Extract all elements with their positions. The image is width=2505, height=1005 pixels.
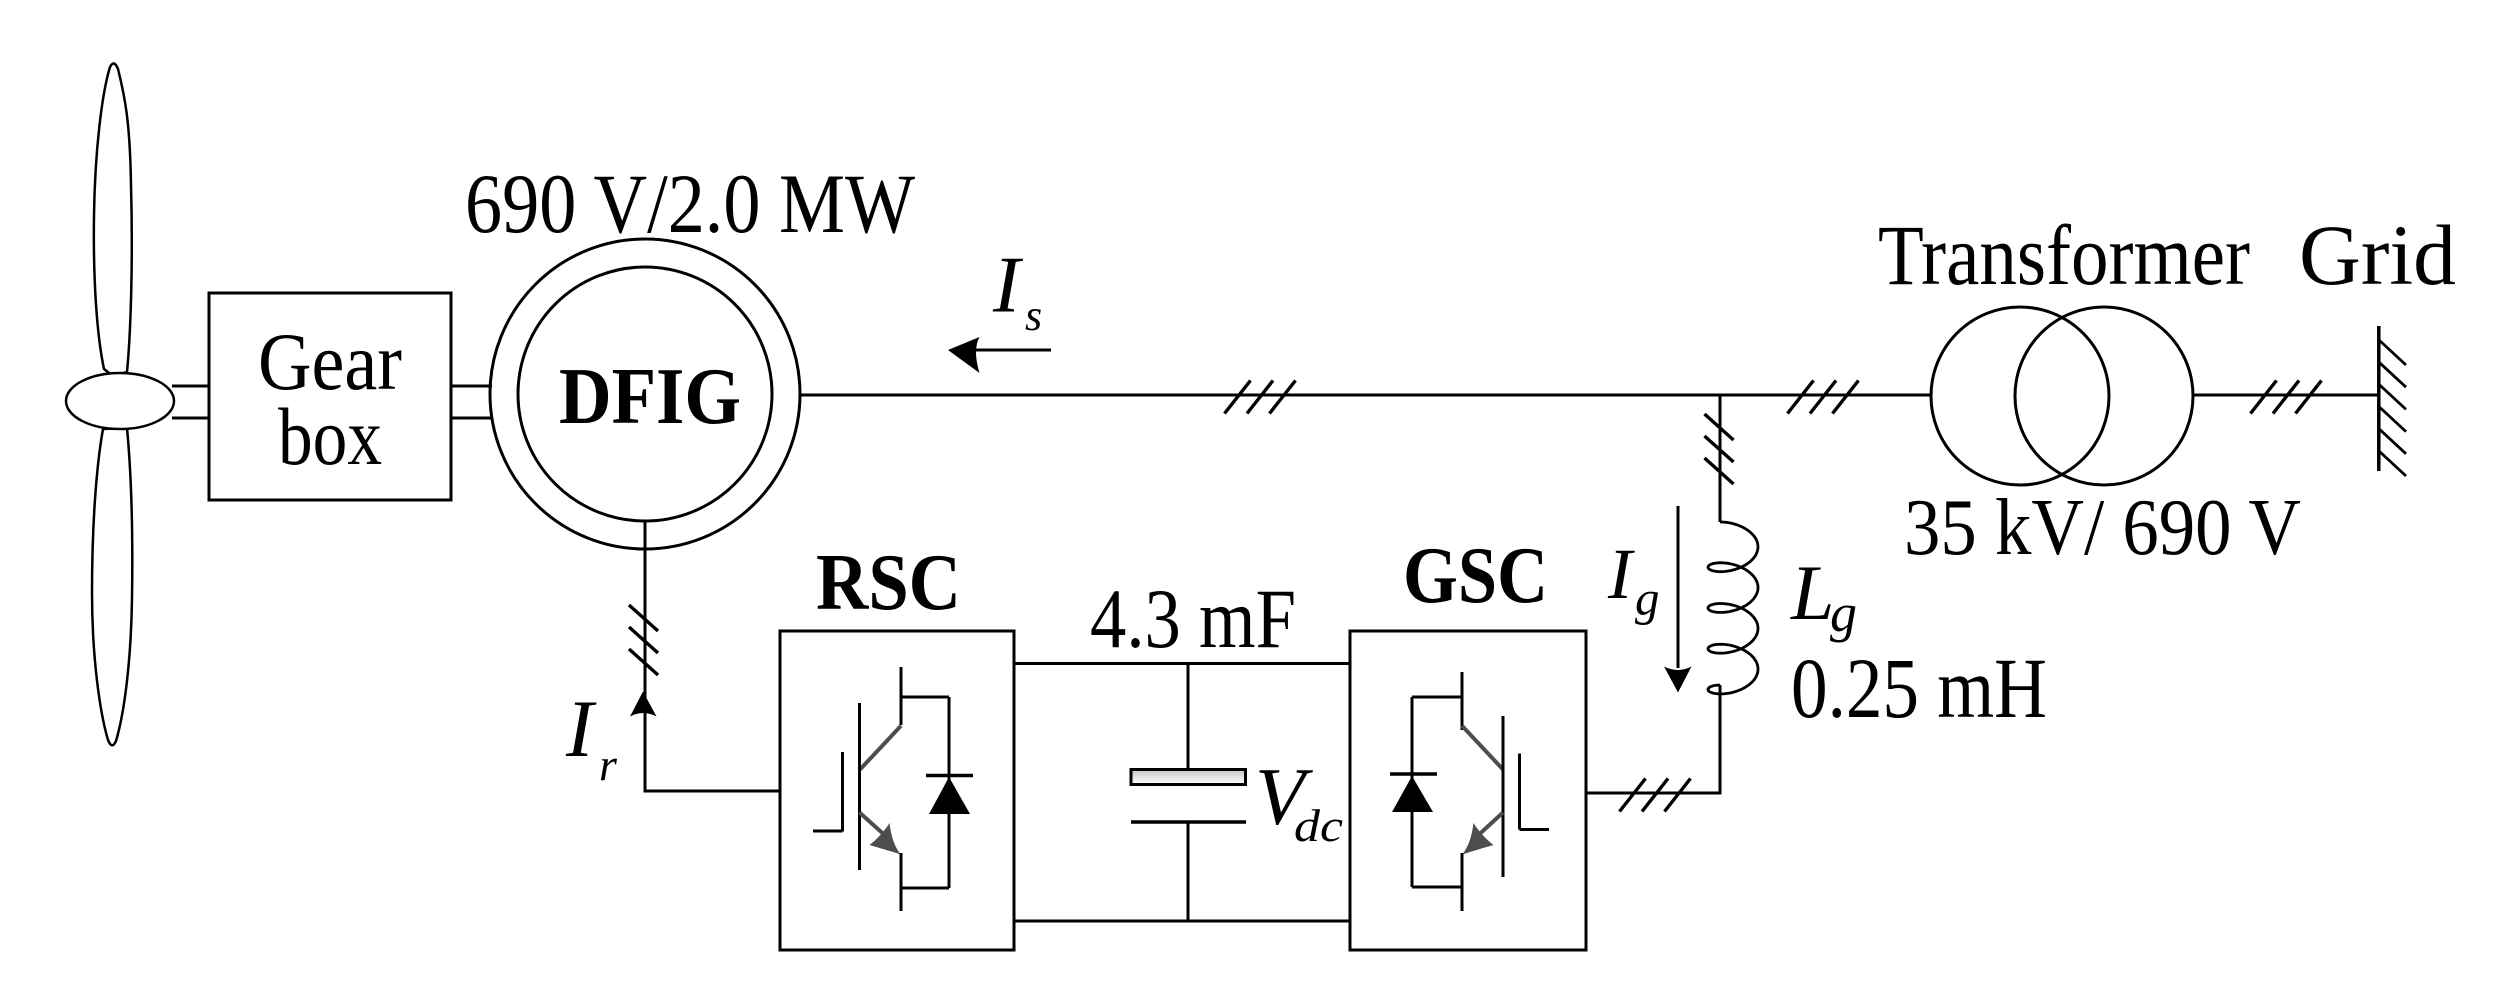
- wire GSC to inductor: [1586, 685, 1720, 793]
- wind turbine blade (top): [94, 63, 132, 376]
- RSC diode bottom link: [901, 887, 949, 890]
- svg-text:L: L: [1790, 549, 1834, 636]
- svg-text:DFIG: DFIG: [559, 351, 741, 441]
- wire bus junction down to inductor: [1719, 395, 1722, 522]
- shaft gearbox to DFIG (upper line): [451, 385, 492, 388]
- GSC diode vertical: [1411, 697, 1414, 887]
- GSC IGBT collector lead: [1461, 672, 1464, 730]
- svg-text:0.25 mH: 0.25 mH: [1791, 640, 2047, 736]
- generator DFIG outer circle: [490, 239, 800, 549]
- gear box: [209, 293, 451, 500]
- three-phase marks on GSC output: [1620, 779, 1646, 812]
- grid wall hatching: [2379, 340, 2406, 365]
- GSC IGBT emitter lead: [1461, 853, 1464, 911]
- svg-text:Grid: Grid: [2299, 207, 2456, 303]
- three-phase marks on bus near transformer: [1788, 381, 1814, 414]
- capacitor bottom lead: [1187, 823, 1190, 921]
- svg-text:I: I: [565, 683, 597, 774]
- RSC diode vertical: [948, 697, 951, 888]
- svg-text:I: I: [1607, 534, 1635, 614]
- RSC IGBT emitter diagonal with arrow: [860, 813, 885, 835]
- wire rotor DFIG to RSC: [645, 521, 780, 791]
- svg-text:s: s: [1025, 291, 1042, 340]
- RSC diode cathode bar: [926, 774, 973, 778]
- generator DFIG inner circle: [518, 267, 772, 521]
- RSC diode triangle: [929, 777, 970, 814]
- current arrow Ig (down): [1677, 506, 1680, 668]
- three-phase marks on stator bus: [1225, 381, 1251, 414]
- wire DC bus top: [1014, 662, 1350, 665]
- wire stator bus DFIG to transformer: [800, 394, 1931, 397]
- wind turbine blade (bottom): [92, 428, 132, 745]
- svg-text:690 V/2.0 MW: 690 V/2.0 MW: [465, 157, 916, 251]
- GSC diode cathode bar: [1390, 772, 1437, 776]
- RSC IGBT collector diagonal: [860, 726, 901, 770]
- svg-text:Transformer: Transformer: [1878, 207, 2250, 303]
- GSC diode bottom link: [1412, 886, 1462, 889]
- svg-text:35 kV/ 690 V: 35 kV/ 690 V: [1904, 484, 2301, 572]
- three-phase marks on rotor wire: [629, 605, 658, 631]
- capacitor C 4.3 mF top plate: [1131, 770, 1246, 785]
- shaft gearbox to DFIG (lower line): [451, 417, 492, 420]
- GSC IGBT emitter diagonal with arrow: [1479, 813, 1503, 835]
- RSC IGBT gate bar: [841, 752, 844, 832]
- transformer left winding: [1931, 307, 2109, 485]
- RSC diode top link: [901, 696, 949, 699]
- converter RSC box: [780, 631, 1014, 950]
- svg-text:g: g: [1635, 571, 1660, 626]
- wire transformer to grid: [2193, 394, 2378, 397]
- RSC IGBT emitter lead: [900, 853, 903, 911]
- three-phase marks on junction wire: [1705, 414, 1734, 440]
- inductor Lg coil: [1708, 522, 1758, 694]
- GSC IGBT body bar: [1502, 716, 1505, 877]
- svg-text:4.3 mF: 4.3 mF: [1090, 572, 1296, 666]
- GSC diode triangle: [1392, 776, 1433, 812]
- shaft hub to gearbox (upper line): [172, 385, 209, 388]
- transformer right winding: [2015, 307, 2193, 485]
- svg-text:g: g: [1830, 583, 1857, 643]
- GSC diode top link: [1412, 696, 1462, 699]
- svg-text:box: box: [278, 391, 382, 482]
- svg-text:r: r: [599, 739, 618, 790]
- RSC IGBT collector lead: [900, 667, 903, 725]
- capacitor top lead: [1187, 664, 1190, 770]
- RSC IGBT gate lead: [813, 830, 843, 833]
- svg-text:dc: dc: [1294, 800, 1343, 851]
- svg-text:GSC: GSC: [1403, 530, 1548, 620]
- three-phase marks transformer-grid: [2251, 381, 2277, 414]
- shaft hub to gearbox (lower line): [172, 417, 209, 420]
- GSC IGBT gate bar: [1518, 754, 1521, 830]
- capacitor bottom plate: [1131, 820, 1246, 824]
- svg-text:RSC: RSC: [816, 537, 961, 627]
- GSC IGBT gate lead: [1520, 828, 1550, 831]
- GSC IGBT collector diagonal: [1462, 726, 1503, 770]
- converter GSC box: [1350, 631, 1586, 950]
- current arrow Is: [975, 349, 1051, 352]
- wind turbine hub: [66, 373, 174, 429]
- svg-text:I: I: [992, 240, 1024, 330]
- grid wall bar: [2377, 326, 2381, 471]
- RSC IGBT body bar: [858, 703, 861, 870]
- wire DC bus bottom: [1014, 920, 1350, 923]
- current arrow Ir (arrowhead up): [630, 692, 657, 717]
